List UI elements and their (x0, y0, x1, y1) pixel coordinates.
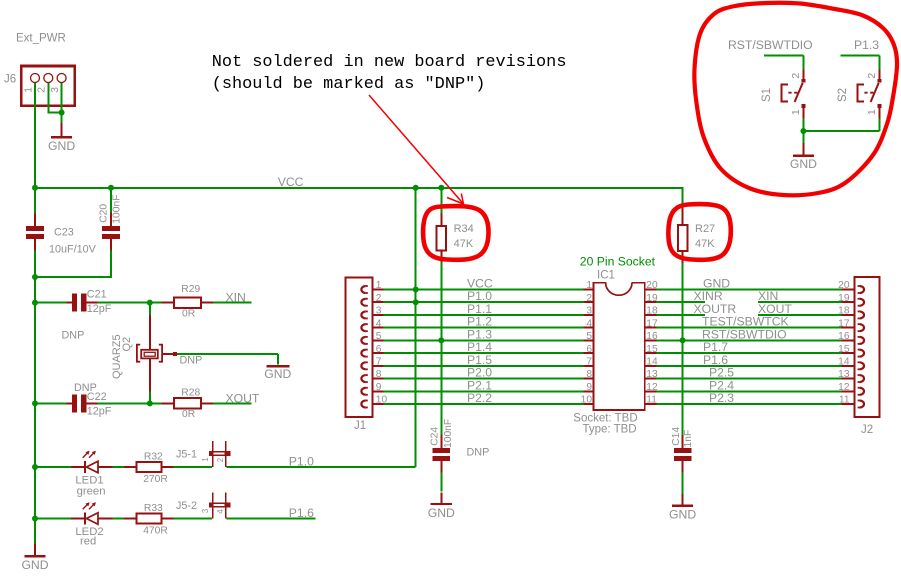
svg-text:red: red (80, 536, 96, 548)
svg-text:IC1: IC1 (597, 270, 615, 282)
svg-text:1: 1 (201, 457, 210, 461)
svg-text:3: 3 (201, 509, 210, 513)
svg-text:100nF: 100nF (443, 419, 454, 448)
svg-text:470R: 470R (143, 526, 168, 537)
svg-text:10uF/10V: 10uF/10V (49, 244, 97, 256)
svg-text:XOUT: XOUT (758, 302, 792, 316)
svg-text:DNP: DNP (180, 355, 203, 367)
svg-text:3: 3 (376, 306, 382, 317)
svg-text:8: 8 (376, 369, 382, 380)
svg-text:green: green (77, 486, 106, 498)
svg-text:Ext_PWR: Ext_PWR (16, 33, 66, 45)
svg-text:2: 2 (586, 293, 592, 304)
svg-text:RST/SBWTDIO: RST/SBWTDIO (728, 38, 813, 52)
svg-text:GND: GND (790, 157, 817, 171)
svg-text:100nF: 100nF (112, 194, 123, 223)
svg-text:P2.3: P2.3 (709, 391, 734, 405)
svg-text:S1: S1 (761, 88, 773, 102)
svg-text:J2: J2 (861, 424, 873, 436)
svg-text:P1.3: P1.3 (854, 38, 879, 52)
svg-text:GND: GND (48, 139, 75, 153)
svg-text:47K: 47K (454, 238, 474, 250)
svg-text:2: 2 (866, 73, 878, 79)
svg-text:C14: C14 (671, 427, 682, 446)
svg-text:7: 7 (376, 357, 382, 368)
svg-text:Type: TBD: Type: TBD (583, 423, 637, 435)
svg-text:P1.0: P1.0 (289, 455, 314, 469)
svg-text:DNP: DNP (62, 330, 85, 342)
svg-text:20 Pin Socket: 20 Pin Socket (580, 255, 656, 269)
svg-text:1: 1 (23, 87, 34, 93)
svg-text:C24: C24 (430, 427, 441, 446)
svg-text:R28: R28 (181, 388, 200, 399)
svg-text:C20: C20 (98, 204, 109, 223)
svg-text:14: 14 (838, 357, 850, 368)
svg-text:11: 11 (839, 395, 850, 406)
svg-text:2: 2 (790, 73, 802, 79)
svg-text:XIN: XIN (226, 290, 246, 304)
svg-text:2: 2 (37, 87, 48, 93)
svg-text:P1.6: P1.6 (289, 506, 314, 520)
svg-text:(should be marked as "DNP"): (should be marked as "DNP") (212, 75, 486, 94)
svg-text:Not soldered in new board revi: Not soldered in new board revisions (212, 53, 567, 72)
svg-text:1: 1 (866, 109, 878, 115)
svg-text:15: 15 (838, 344, 850, 355)
svg-text:9: 9 (376, 382, 382, 393)
svg-text:R27: R27 (695, 223, 715, 235)
svg-text:VCC: VCC (278, 175, 304, 189)
svg-text:3: 3 (50, 87, 61, 93)
svg-text:DNP: DNP (467, 447, 490, 459)
svg-text:2: 2 (376, 293, 382, 304)
svg-text:20: 20 (838, 280, 850, 291)
svg-text:GND: GND (428, 506, 455, 520)
svg-text:GND: GND (669, 508, 696, 522)
svg-text:7: 7 (586, 357, 592, 368)
svg-text:4: 4 (376, 318, 382, 329)
svg-text:J5-2: J5-2 (176, 500, 197, 512)
svg-text:1nF: 1nF (683, 430, 694, 448)
svg-text:C21: C21 (87, 288, 107, 300)
svg-text:GND: GND (21, 558, 48, 572)
svg-text:0R: 0R (182, 409, 195, 420)
svg-text:2: 2 (216, 458, 225, 462)
svg-text:R34: R34 (454, 223, 474, 235)
svg-text:0R: 0R (182, 308, 195, 319)
svg-text:18: 18 (838, 306, 850, 317)
svg-text:3: 3 (586, 306, 592, 317)
svg-text:9: 9 (586, 382, 592, 393)
svg-text:270R: 270R (143, 474, 168, 485)
svg-text:R33: R33 (144, 503, 163, 514)
svg-text:12: 12 (838, 382, 850, 393)
svg-text:1: 1 (790, 109, 802, 115)
svg-text:J6: J6 (4, 74, 16, 86)
svg-text:Q2: Q2 (121, 337, 133, 352)
svg-text:XOUT: XOUT (226, 392, 260, 406)
svg-text:17: 17 (838, 318, 850, 329)
svg-text:12pF: 12pF (87, 406, 112, 418)
svg-text:19: 19 (838, 293, 850, 304)
svg-text:5: 5 (376, 331, 382, 342)
svg-text:C22: C22 (87, 391, 107, 403)
svg-text:12pF: 12pF (87, 303, 112, 315)
svg-text:10: 10 (376, 395, 388, 406)
svg-text:10: 10 (581, 395, 593, 406)
svg-text:1: 1 (376, 280, 382, 291)
svg-text:6: 6 (586, 344, 592, 355)
svg-text:4: 4 (586, 318, 592, 329)
svg-text:4: 4 (216, 509, 225, 514)
svg-text:1: 1 (586, 280, 592, 291)
svg-text:P2.2: P2.2 (467, 391, 492, 405)
svg-text:8: 8 (586, 369, 592, 380)
svg-text:J1: J1 (354, 420, 366, 432)
svg-text:C23: C23 (54, 227, 74, 239)
svg-text:R29: R29 (181, 284, 200, 295)
svg-text:13: 13 (838, 369, 850, 380)
svg-text:R32: R32 (144, 452, 163, 463)
svg-text:47K: 47K (695, 238, 715, 250)
svg-text:5: 5 (586, 331, 592, 342)
svg-text:6: 6 (376, 344, 382, 355)
svg-text:GND: GND (264, 367, 291, 381)
svg-text:J5-1: J5-1 (176, 449, 197, 461)
svg-text:16: 16 (838, 331, 850, 342)
svg-text:S2: S2 (837, 88, 849, 102)
